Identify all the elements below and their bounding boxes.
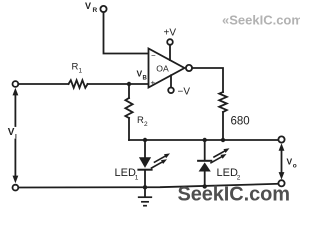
junction 680 bottom (221, 138, 225, 142)
svg-text:−V: −V (178, 87, 191, 98)
wire LED1 to ground (144, 170, 146, 196)
junction LED2 top (203, 138, 207, 142)
terminal output top (278, 136, 284, 142)
svg-text:OA: OA (156, 63, 169, 73)
svg-text:+: + (151, 79, 156, 88)
node B junction (127, 82, 131, 86)
svg-text:1: 1 (79, 67, 83, 74)
terminal input top (13, 81, 19, 87)
wire bottom rail (18, 184, 278, 188)
wire R2 to mid rail (128, 118, 130, 140)
op-amp U1 (149, 49, 185, 88)
svg-text:SeekIC.com: SeekIC.com (178, 184, 291, 206)
ground (139, 197, 152, 206)
svg-text:V: V (287, 157, 293, 167)
svg-text:V: V (85, 1, 91, 11)
junction LED1 bottom (143, 185, 147, 189)
LED1 (144, 140, 146, 157)
resistor 680 (219, 92, 227, 112)
svg-text:«SeekIC.com: «SeekIC.com (222, 13, 300, 28)
wire input to R1 (18, 83, 68, 85)
svg-text:R: R (72, 61, 79, 72)
junction LED1 top (143, 138, 147, 142)
svg-text:LED: LED (115, 167, 136, 179)
terminal VR (100, 6, 106, 12)
svg-text:680: 680 (231, 116, 250, 128)
wire LED2 to bottom rail (204, 172, 206, 187)
terminal input bottom (13, 185, 19, 191)
wire VR to op-amp inverting input (104, 12, 149, 53)
svg-text:I: I (15, 134, 17, 141)
node VR label (85, 1, 98, 14)
watermark bottom (178, 184, 291, 206)
svg-text:2: 2 (144, 121, 148, 128)
resistor R1 (69, 80, 88, 88)
wire R1 to node B (88, 83, 149, 85)
svg-text:B: B (143, 76, 148, 82)
svg-text:2: 2 (237, 175, 241, 182)
wire node B to R2 (128, 84, 130, 98)
svg-text:R: R (93, 7, 98, 14)
wire 680 to mid rail (222, 112, 224, 140)
op-amp non-inverting pin mark (151, 79, 156, 88)
node VO voltage arrow (281, 149, 283, 175)
LED2 (204, 140, 206, 160)
resistor R2 (125, 98, 132, 118)
junction LED2 bottom (203, 184, 207, 188)
watermark top right (222, 13, 303, 28)
op-amp output terminal (186, 65, 192, 71)
op-amp -V supply pin (168, 88, 174, 94)
terminal output bottom (278, 180, 284, 186)
svg-text:V: V (8, 127, 15, 138)
svg-text:1: 1 (135, 175, 139, 182)
node VI voltage arrow (14, 94, 16, 126)
op-amp inverting pin mark (151, 51, 156, 60)
svg-text:+V: +V (164, 28, 177, 39)
wire op-amp output to 680 (192, 68, 223, 92)
svg-text:o: o (293, 163, 297, 170)
svg-text:LED: LED (217, 167, 238, 179)
wire mid rail (129, 139, 278, 141)
op-amp +V supply pin (167, 39, 173, 45)
svg-text:R: R (137, 115, 144, 126)
svg-text:−: − (151, 51, 156, 60)
